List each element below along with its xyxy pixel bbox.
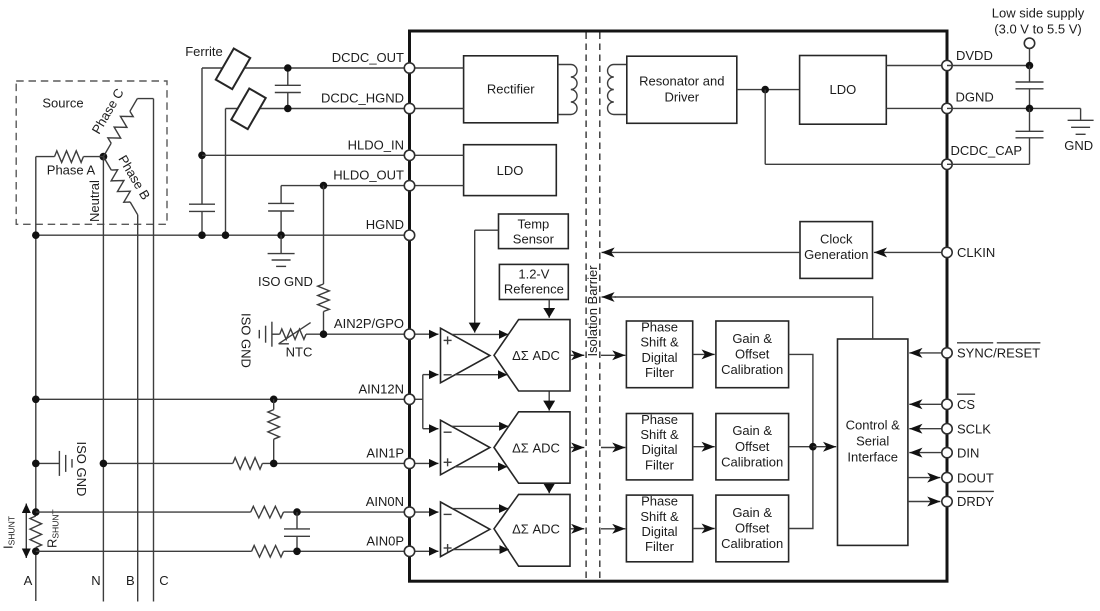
svg-text:Resonator and: Resonator and (639, 74, 724, 89)
wire DCDC_HGND external (226, 108, 410, 110)
wire amp1 output P (452, 333, 509, 335)
wire C-line (153, 99, 155, 602)
wire SCLK input (909, 428, 947, 430)
wire temp sensor to mux (475, 229, 499, 231)
svg-text:DCDC_OUT: DCDC_OUT (332, 50, 404, 65)
wire HLDO_OUT external (281, 185, 409, 187)
wire AIN0P input (410, 550, 439, 552)
wire AIN0P external (36, 550, 252, 552)
wire calibration2 output (789, 446, 813, 448)
resistor Phase A (36, 156, 55, 158)
block Gain Offset Calibration 1 (716, 321, 789, 388)
svg-text:Phase A: Phase A (47, 163, 96, 178)
svg-text:CLKIN: CLKIN (957, 245, 995, 260)
svg-text:HGND: HGND (366, 217, 404, 232)
wire DCDC_OUT external (202, 67, 410, 69)
block Phase Shift Digital Filter 2 (626, 414, 692, 480)
wire reference to ADC1 (548, 300, 550, 318)
svg-text:1.2-V: 1.2-V (518, 267, 549, 282)
op-amp PGA3 (441, 502, 490, 557)
wire HLDO_IN internal (410, 154, 464, 156)
wire HLDO_IN external (202, 154, 410, 156)
capacitor C-dcdccap (1029, 108, 1031, 131)
svg-text:SYNC/RESET: SYNC/RESET (957, 346, 1040, 361)
terminal low-side supply (1024, 38, 1034, 48)
svg-text:(3.0 V to 5.5 V): (3.0 V to 5.5 V) (994, 22, 1081, 37)
svg-text:DRDY: DRDY (957, 494, 994, 509)
resistor R-ntc-pullup (318, 284, 330, 312)
resistor R-div-vert (273, 399, 275, 409)
wire calibration3 output (789, 447, 813, 529)
block LDO high-side (464, 145, 557, 196)
wire Phase-A line (35, 157, 37, 512)
thermistor NTC (272, 333, 280, 335)
svg-text:Low side supply: Low side supply (992, 6, 1085, 21)
svg-text:Offset: Offset (735, 347, 770, 362)
ground ISO GND at phase A (36, 462, 60, 464)
svg-text:DVDD: DVDD (956, 48, 993, 63)
svg-text:Calibration: Calibration (721, 362, 783, 377)
wire Neutral line (102, 157, 104, 602)
svg-text:Sensor: Sensor (513, 232, 555, 247)
wire AIN12N external (36, 398, 410, 400)
wire AIN12N input split (410, 398, 423, 400)
svg-text:ISO GND: ISO GND (239, 313, 254, 368)
IC pins right (942, 60, 952, 70)
block Gain Offset Calibration 2 (716, 414, 789, 480)
svg-text:AIN0N: AIN0N (366, 494, 404, 509)
svg-text:Filter: Filter (645, 539, 675, 554)
wire CLKIN input (874, 251, 947, 253)
node star-point (100, 153, 108, 161)
wire LDO to DGND (886, 107, 947, 109)
ground ISO GND below HGND (280, 235, 282, 253)
wire amp3 output P (452, 508, 508, 510)
wire ADC3 to barrier (570, 528, 584, 530)
capacitor C-dvdd (1029, 66, 1031, 83)
svg-text:C: C (159, 573, 168, 588)
svg-text:HLDO_IN: HLDO_IN (348, 137, 404, 152)
wire barrier to filter1 (601, 354, 625, 356)
wire filter2 to calibration2 (693, 446, 715, 448)
svg-text:SCLK: SCLK (957, 421, 991, 436)
svg-text:DIN: DIN (957, 445, 979, 460)
block LDO low-side (800, 56, 887, 125)
svg-text:Phase: Phase (641, 494, 678, 509)
resistor Phase C (103, 143, 111, 156)
svg-text:DGND: DGND (956, 90, 994, 105)
svg-text:Temp: Temp (518, 217, 550, 232)
resistor R-ain0p (252, 546, 284, 558)
svg-text:Gain &: Gain & (732, 331, 772, 346)
delta-sigma ADC1 (494, 320, 570, 391)
wire vertical B (225, 109, 227, 236)
wire CS input (909, 403, 947, 405)
svg-text:ΔΣ ADC: ΔΣ ADC (512, 522, 560, 537)
svg-text:Filter: Filter (645, 365, 675, 380)
svg-text:Rectifier: Rectifier (487, 82, 535, 97)
svg-text:Digital: Digital (641, 442, 677, 457)
resistor R-ain0n (251, 506, 284, 518)
IC pins left (404, 63, 414, 73)
svg-text:AIN1P: AIN1P (366, 445, 404, 460)
svg-text:Neutral: Neutral (87, 180, 102, 222)
wire DCDC_CAP external (947, 163, 1030, 165)
wire reference ADC1 to ADC2 (548, 391, 550, 411)
svg-text:AIN12N: AIN12N (358, 381, 404, 396)
svg-text:ΔΣ ADC: ΔΣ ADC (512, 440, 560, 455)
capacitor C-hldoout (280, 186, 282, 204)
source dashed box (16, 81, 167, 224)
wire AIN0N external (36, 511, 251, 513)
IC package outline (410, 31, 948, 581)
ground ISO GND at NTC (271, 322, 273, 347)
ISHUNT current arrow (25, 504, 27, 559)
op-amp PGA2 (441, 420, 490, 475)
ferrite bead FB1 (216, 48, 250, 89)
svg-text:CS: CS (957, 397, 975, 412)
wire clock to barrier (602, 251, 801, 253)
svg-text:Source: Source (42, 96, 83, 111)
wire DRDY output (908, 501, 941, 503)
svg-text:Shift &: Shift & (640, 509, 679, 524)
wire HLDO_OUT to NTC node (323, 186, 325, 284)
wire DCDC_CAP internal (764, 90, 766, 165)
svg-text:Phase: Phase (641, 320, 678, 335)
wire AIN1P external (103, 462, 232, 464)
wire HLDO_OUT internal (410, 185, 464, 187)
block 1.2-V Reference (499, 264, 568, 299)
wire control to modulators (615, 297, 873, 339)
ground GND (1080, 108, 1082, 120)
wire amp2 output N (455, 466, 507, 468)
wire AIN2P/GPO external (306, 333, 410, 335)
svg-text:LDO: LDO (830, 82, 857, 97)
delta-sigma ADC3 (494, 494, 570, 566)
svg-text:Gain &: Gain & (732, 505, 772, 520)
transformer secondary winding (608, 65, 627, 115)
svg-text:Offset: Offset (735, 521, 770, 536)
svg-text:Shift &: Shift & (640, 427, 679, 442)
resistor RSHUNT (30, 516, 42, 547)
svg-text:AIN0P: AIN0P (366, 533, 404, 548)
block Clock Generation (800, 222, 873, 279)
svg-text:Driver: Driver (664, 90, 699, 105)
svg-text:HLDO_OUT: HLDO_OUT (333, 168, 404, 183)
wire barrier to filter2 (601, 447, 625, 449)
op-amp PGA1 (441, 328, 490, 383)
svg-text:Shift &: Shift & (640, 335, 679, 350)
wire AIN1P input (410, 462, 439, 464)
block Temp Sensor (499, 214, 569, 249)
wire barrier to filter3 (601, 528, 625, 530)
svg-text:Generation: Generation (804, 247, 868, 262)
block Phase Shift Digital Filter 3 (626, 495, 692, 562)
svg-text:Phase: Phase (641, 412, 678, 427)
capacitor C-hldoin (189, 203, 215, 205)
wire supply to DVDD (1029, 48, 1031, 65)
isolation barrier dashed line 1 (585, 33, 587, 580)
wire ferrite branch vertical A (201, 68, 203, 204)
svg-text:ΔΣ ADC: ΔΣ ADC (512, 348, 560, 363)
svg-text:Digital: Digital (641, 350, 677, 365)
svg-text:LDO: LDO (497, 163, 524, 178)
svg-text:Isolation Barrier: Isolation Barrier (585, 265, 600, 357)
svg-text:DCDC_HGND: DCDC_HGND (321, 91, 404, 106)
svg-text:Reference: Reference (504, 282, 564, 297)
wire merge to control (813, 446, 836, 448)
block Rectifier (464, 56, 558, 123)
wire DCDC_HGND internal (410, 108, 464, 110)
svg-text:Offset: Offset (735, 439, 770, 454)
capacitor C-ain0 (296, 512, 298, 529)
svg-text:Control &: Control & (846, 418, 901, 433)
svg-text:GND: GND (1064, 138, 1093, 153)
wire DOUT output (908, 477, 941, 479)
svg-text:Digital: Digital (641, 524, 677, 539)
svg-text:N: N (91, 573, 100, 588)
svg-text:Serial: Serial (856, 434, 889, 449)
svg-text:DOUT: DOUT (957, 470, 994, 485)
wire amp1 output N (455, 374, 507, 376)
wire amp3 output N (453, 549, 509, 551)
svg-text:Ferrite: Ferrite (185, 44, 223, 59)
block Gain Offset Calibration 3 (716, 495, 789, 562)
svg-text:ISO GND: ISO GND (258, 274, 313, 289)
wire filter1 to calibration1 (693, 353, 715, 355)
wire DCDC_OUT internal (410, 67, 464, 69)
delta-sigma ADC2 (494, 412, 570, 483)
svg-text:Filter: Filter (645, 457, 675, 472)
ferrite bead FB2 (231, 88, 265, 129)
svg-text:ISO GND: ISO GND (74, 442, 89, 497)
wire ADC1 to barrier (570, 354, 584, 356)
wire resonator to LDO (737, 89, 800, 91)
block Phase Shift Digital Filter 1 (626, 321, 692, 388)
svg-text:DCDC_CAP: DCDC_CAP (951, 143, 1023, 158)
wire HGND (36, 234, 410, 236)
wire SYNC/RESET input (909, 352, 947, 354)
svg-text:NTC: NTC (286, 344, 313, 359)
wire ADC2 to barrier (570, 447, 584, 449)
wire reference ADC2 to ADC3 (548, 483, 550, 493)
wire AIN0N input (410, 511, 439, 513)
wire LDO to DVDD (886, 65, 947, 67)
svg-text:B: B (126, 573, 135, 588)
wire calibration1 output (789, 354, 813, 446)
capacitor C-dcdc (287, 68, 289, 85)
resistor Phase B (103, 157, 111, 171)
wire AIN2P input (410, 333, 439, 335)
transformer primary winding (558, 65, 577, 115)
svg-text:Interface: Interface (847, 450, 898, 465)
wire filter3 to calibration3 (693, 528, 715, 530)
wire amp2 output P (452, 425, 509, 427)
isolation barrier dashed line 2 (599, 33, 601, 580)
svg-text:A: A (24, 573, 33, 588)
svg-text:AIN2P/GPO: AIN2P/GPO (334, 316, 404, 331)
svg-text:Calibration: Calibration (721, 536, 783, 551)
wire DIN input (909, 452, 947, 454)
resistor R-ain1p (233, 458, 263, 470)
wire DGND external (947, 107, 1081, 109)
svg-text:Clock: Clock (820, 232, 853, 247)
svg-text:Calibration: Calibration (721, 454, 783, 469)
block Resonator and Driver (627, 56, 737, 123)
block Control and Serial Interface (838, 339, 908, 545)
svg-text:Gain &: Gain & (732, 423, 772, 438)
